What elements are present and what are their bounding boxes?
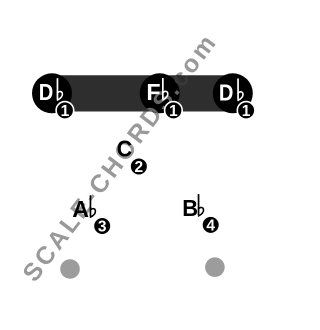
barre bar (finger 1 across) (52, 75, 233, 111)
finger badge finger 4 (Bb) (202, 216, 220, 234)
svg-text:1: 1 (242, 103, 251, 120)
svg-text:C: C (117, 136, 132, 162)
svg-text:B: B (182, 195, 198, 221)
svg-text:D: D (219, 79, 234, 106)
svg-text:3: 3 (98, 219, 107, 236)
svg-text:2: 2 (135, 159, 144, 176)
note label Db right flat (flat sign) (238, 79, 243, 101)
finger badge finger 1 (middle Fb) (165, 102, 183, 120)
svg-text:F: F (146, 79, 160, 105)
svg-text:D: D (39, 79, 54, 106)
finger badge finger 1 (left Db) (56, 102, 74, 120)
note label Fb flat (flat sign) (163, 78, 168, 100)
svg-text:1: 1 (169, 103, 178, 120)
fret inlay marker dot (left) (60, 259, 80, 279)
svg-text:1: 1 (61, 103, 70, 120)
watermark SCALE-CHORDS.com (17, 30, 221, 287)
svg-text:A: A (72, 196, 89, 222)
fret inlay marker dot (right) (205, 257, 225, 277)
finger badge finger 2 (C) (130, 158, 148, 176)
note disc Fb (middle) (140, 73, 180, 113)
svg-text:4: 4 (206, 217, 215, 234)
note disc Db (right) (213, 73, 253, 113)
finger badge finger 1 (right Db) (237, 102, 255, 120)
note disc Db (left) (32, 73, 72, 113)
note label Ab flat (flat sign) (90, 195, 95, 217)
note label Db left flat (flat sign) (57, 78, 62, 100)
finger badge finger 3 (Ab) (93, 217, 111, 235)
note label Bb flat (flat sign) (199, 194, 204, 216)
